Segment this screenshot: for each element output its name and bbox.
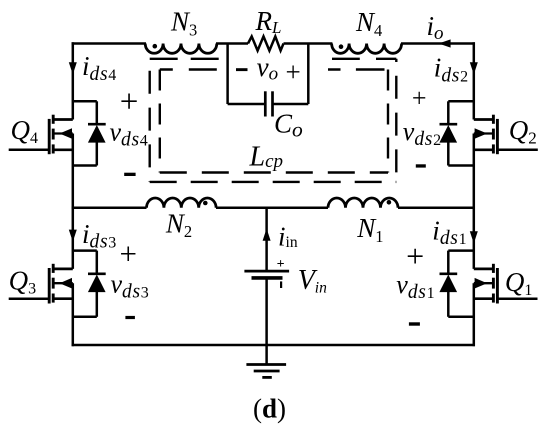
svg-text:io: io: [427, 11, 444, 44]
coupling outer dashed rectangle Lcp: [150, 59, 397, 182]
D1 bottom stub: [448, 316, 474, 319]
transistor Q4: [9, 115, 73, 155]
svg-text:ids2: ids2: [434, 53, 468, 87]
Q3 drain bar: [53, 268, 73, 271]
Q2 channel dashes: [492, 115, 495, 124]
wire Vin branch upper: [265, 208, 268, 271]
Q2 body bar with arrow: [474, 132, 494, 134]
Q4 drain bar: [53, 118, 73, 121]
D1 triangle: [439, 275, 457, 293]
svg-text:Lcp: Lcp: [249, 141, 284, 172]
Q4 channel dashes: [52, 115, 55, 124]
diode D1: [439, 251, 473, 317]
wire middle rail center: [216, 207, 328, 210]
wire bottom rail: [72, 344, 475, 347]
Q3 body bar with arrow: [53, 282, 73, 284]
diode D4: [73, 101, 106, 165]
wire vo box bottom right: [273, 103, 309, 106]
D4 top stub: [73, 100, 97, 103]
Q3 channel dashes: [52, 264, 55, 273]
D4 cathode bar: [88, 123, 106, 126]
Q1 drain bar: [474, 268, 494, 271]
dot N2: [203, 201, 208, 206]
Q4 gate bar: [48, 119, 51, 154]
svg-text:Q4: Q4: [11, 115, 39, 147]
svg-text:N4: N4: [355, 7, 382, 40]
svg-text:ids1: ids1: [432, 216, 466, 250]
svg-text:N3: N3: [170, 7, 197, 40]
D3 top stub: [73, 249, 97, 252]
battery minus tick: [280, 281, 282, 288]
D4 upper vertical: [96, 101, 99, 125]
D2 bottom stub: [448, 164, 474, 167]
D2 top stub: [448, 100, 474, 103]
coupling inner dashed rectangle Lcp: [160, 70, 388, 173]
Q2 drain bar: [474, 118, 494, 121]
diode D2: [439, 101, 473, 165]
arrow ids3: [69, 230, 77, 242]
arrow io: [439, 39, 451, 47]
D1 lower vertical: [447, 292, 450, 317]
inductor N4: [332, 44, 402, 54]
arrow ids1: [470, 231, 478, 243]
D2 cathode bar: [440, 123, 458, 126]
svg-text:vo: vo: [257, 52, 278, 85]
svg-text:vds1: vds1: [396, 270, 434, 303]
wire left rail lower: [72, 283, 75, 346]
wire vo box bottom left: [228, 103, 266, 106]
Q1 channel dashes: [492, 264, 495, 273]
dot N3: [153, 44, 158, 49]
Q3 source bar: [53, 297, 73, 300]
svg-text:ids3: ids3: [82, 219, 116, 253]
capacitor Co: [264, 91, 267, 116]
transistor Q3: [9, 264, 73, 304]
Q4 source bar: [53, 148, 73, 151]
transistor Q2: [474, 115, 538, 155]
Q1 body bar with arrow: [474, 282, 494, 284]
svg-text:RL: RL: [255, 6, 282, 37]
svg-text:N1: N1: [356, 213, 383, 246]
label minus vds4: [124, 173, 135, 176]
svg-text:Q1: Q1: [505, 267, 533, 299]
Q2 gate bar: [496, 119, 499, 154]
wire top rail left segment: [72, 42, 146, 45]
wire left rail between Q4 and Q3: [72, 134, 75, 269]
svg-text:Vin: Vin: [298, 265, 327, 296]
wire top rail between N3 and RL: [216, 42, 248, 45]
svg-text:ids4: ids4: [82, 51, 116, 85]
svg-text:(d): (d): [253, 394, 286, 424]
svg-text:N2: N2: [165, 209, 192, 242]
svg-text:iin: iin: [278, 221, 298, 251]
wire Vin branch lower: [265, 278, 268, 345]
D1 cathode bar: [440, 272, 458, 275]
D1 top stub: [448, 249, 474, 252]
ground: [265, 345, 268, 365]
Q1 gate bar: [496, 268, 499, 304]
svg-text:Q2: Q2: [509, 115, 537, 147]
wire middle rail left: [72, 207, 147, 210]
wire right rail between Q2 and Q1: [473, 134, 476, 269]
svg-text:+: +: [120, 236, 137, 271]
transistor Q1: [474, 264, 538, 304]
inductor N1: [328, 198, 398, 208]
Q2 source bar: [474, 148, 494, 151]
Q1 gate wire: [497, 297, 537, 300]
D4 triangle: [88, 125, 106, 143]
D1 upper vertical: [447, 251, 450, 275]
Q2 gate wire: [497, 149, 537, 152]
svg-text:+: +: [412, 84, 427, 113]
svg-text:vds3: vds3: [111, 270, 149, 303]
svg-text:Co: Co: [274, 108, 303, 141]
arrow ids4: [69, 62, 77, 74]
Q3 gate wire: [9, 297, 50, 300]
Q3 gate bar: [48, 268, 51, 304]
dot N1: [387, 200, 392, 205]
inductor N2: [147, 198, 217, 208]
inductor N3: [145, 44, 217, 54]
D2 triangle: [439, 125, 457, 143]
svg-text:+: +: [120, 84, 139, 120]
label minus vds3: [125, 316, 134, 319]
dot N4: [339, 44, 344, 49]
diode D3: [73, 251, 106, 317]
D3 cathode bar: [88, 272, 106, 275]
label minus vds2: [416, 164, 426, 167]
D4 lower vertical: [96, 142, 99, 166]
wire middle rail right: [398, 207, 475, 210]
wire vo box right vertical: [307, 44, 310, 105]
resistor RL: [248, 36, 284, 50]
svg-text:+: +: [286, 57, 301, 87]
D3 bottom stub: [73, 316, 97, 319]
arrow ids2: [470, 62, 478, 74]
arrow iin: [263, 229, 271, 241]
D2 lower vertical: [447, 142, 450, 166]
wire right rail lower: [473, 283, 476, 346]
Q4 gate wire: [9, 149, 50, 152]
svg-text:vds2: vds2: [403, 117, 441, 150]
svg-text:Q3: Q3: [9, 265, 36, 297]
label minus vo plus: [236, 68, 248, 71]
D3 lower vertical: [96, 292, 99, 317]
battery Vin bottom plate: [252, 276, 283, 280]
wire left rail upper: [72, 42, 75, 119]
D3 upper vertical: [96, 251, 99, 275]
svg-text:+: +: [406, 238, 424, 274]
svg-text:+: +: [277, 257, 285, 272]
wire top rail between RL and N4: [284, 42, 333, 45]
wire top rail right segment with io: [401, 42, 475, 45]
Q4 body bar with arrow: [53, 132, 73, 134]
battery Vin top plate: [244, 270, 289, 273]
svg-text:vds4: vds4: [110, 118, 148, 151]
D3 triangle: [88, 275, 106, 293]
Q1 source bar: [474, 297, 494, 300]
label minus vds1: [409, 322, 420, 325]
D2 upper vertical: [447, 101, 450, 125]
wire vo box left vertical: [226, 44, 229, 105]
wire right rail upper: [473, 42, 476, 119]
D4 bottom stub: [73, 164, 97, 167]
